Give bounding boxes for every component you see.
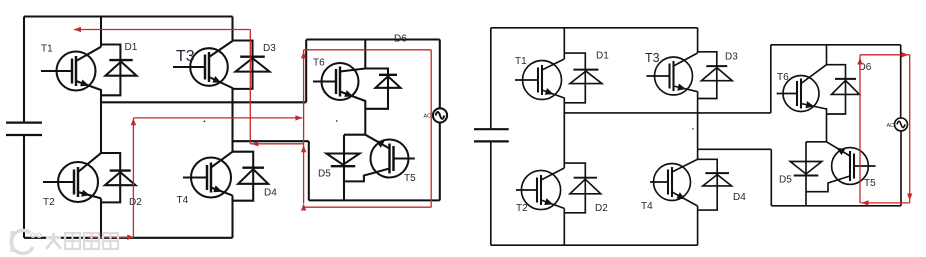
wire T6 collector stub: [364, 40, 366, 69]
svg-text:D5: D5: [779, 175, 792, 186]
svg-text:T3: T3: [176, 48, 195, 65]
wire midpoint bus 2 right: [698, 148, 772, 150]
red path box bottom segment: [304, 206, 432, 208]
diode D5 right: [790, 162, 822, 176]
wire midpoint bus 1 right: [564, 112, 771, 114]
red arrow up at box corner: [301, 204, 306, 211]
wire D4 branch: [233, 152, 254, 201]
svg-text:D3: D3: [263, 43, 276, 54]
wire top bus right: [491, 27, 698, 29]
diode D1 right: [570, 70, 602, 84]
IGBT T3: [173, 41, 233, 88]
svg-text:D1: D1: [596, 51, 609, 62]
label D3 right: [725, 52, 738, 63]
svg-text:T5: T5: [404, 173, 416, 184]
wire D2 branch: [101, 153, 120, 202]
wire leg1 upper segment: [100, 17, 102, 47]
label T2 right: [516, 203, 528, 214]
label D2 right: [595, 203, 608, 214]
IGBT T2 right: [516, 168, 564, 210]
label AC left: [424, 114, 432, 120]
svg-text:T6: T6: [777, 72, 789, 83]
svg-text:D5: D5: [318, 169, 331, 180]
red loop left vertical: [859, 55, 861, 203]
svg-text:AC: AC: [887, 123, 895, 129]
wire T6R box top bus: [771, 44, 901, 46]
node dot b: [336, 120, 338, 122]
red arrow up through D6: [857, 58, 862, 65]
red path AC right vertical: [430, 50, 432, 207]
wire D1 branch: [101, 45, 120, 96]
svg-text:D2: D2: [129, 197, 142, 208]
red path D3 vertical: [249, 30, 251, 144]
label T5: [404, 173, 416, 184]
label T2: [43, 197, 55, 208]
diode D4: [238, 168, 268, 184]
diode D5: [326, 154, 359, 167]
wire D5 branch: [343, 135, 345, 201]
svg-text:D4: D4: [264, 188, 277, 199]
wire D5 top stub: [344, 134, 365, 136]
wire midpoint bus 1: [101, 101, 306, 103]
red path top bus segment: [74, 29, 250, 31]
watermark: [11, 230, 118, 253]
wire T6R collector stub: [826, 45, 828, 65]
IGBT T4 right: [650, 159, 698, 206]
label D1 right: [596, 51, 609, 62]
wire D2 branch right: [564, 163, 585, 213]
node dot c: [692, 128, 694, 130]
wire D5R top stub: [806, 141, 827, 143]
wire T6R emitter to T5 node: [826, 108, 828, 142]
label D2: [129, 197, 142, 208]
diode D6: [376, 75, 401, 88]
red arrow up at D2 top: [131, 118, 136, 125]
red path D2 vertical: [132, 118, 134, 237]
wire AC source lower lead: [439, 123, 441, 201]
IGBT T6: [313, 63, 365, 101]
capacitor C1: [6, 17, 42, 238]
label T5 right: [864, 178, 876, 189]
wire D6 branch right: [827, 65, 846, 114]
wire leg2 upper segment: [231, 17, 233, 42]
svg-text:oo: oo: [30, 230, 42, 241]
wire leg2R lower segment: [697, 206, 699, 245]
svg-text:T4: T4: [641, 201, 653, 212]
red arrow into capacitor: [74, 27, 81, 32]
red path T6 box top segment: [304, 49, 432, 51]
IGBT T1: [41, 47, 101, 91]
red path midpoint2 segment: [250, 143, 303, 145]
label D3: [263, 43, 276, 54]
wire leg2 middle segment: [231, 88, 233, 152]
svg-text:D1: D1: [125, 42, 138, 53]
wire top bus left: [24, 15, 233, 17]
diode D2 right: [570, 178, 601, 194]
label D6 right: [859, 62, 872, 73]
wire bottom bus left: [24, 237, 233, 239]
label T1: [41, 44, 53, 55]
label T4 right: [641, 201, 653, 212]
label T6: [313, 58, 325, 69]
label T3: [176, 48, 195, 65]
IGBT T2: [43, 153, 101, 202]
IGBT T4: [183, 152, 233, 198]
wire D1 branch right: [564, 53, 585, 103]
wire T5 box bottom bus: [309, 199, 440, 201]
wire T5 box bottom-left edge: [308, 141, 310, 200]
svg-text:D4: D4: [733, 192, 746, 203]
wire T5R box bottom bus: [771, 205, 901, 207]
diode D4 right: [703, 173, 732, 186]
IGBT T6 right: [777, 65, 827, 112]
wire D5R branch: [805, 142, 807, 206]
label D5: [318, 169, 331, 180]
node dot a: [204, 121, 206, 123]
svg-text:T4: T4: [177, 195, 189, 206]
diode D3: [236, 57, 270, 72]
svg-text:AC: AC: [424, 114, 432, 120]
red arrow left at T5: [862, 200, 869, 205]
svg-text:T1: T1: [515, 56, 527, 67]
wire T6 box left edge: [305, 40, 307, 103]
wire D4 branch right: [698, 159, 718, 210]
IGBT T5: [344, 135, 415, 182]
red arrow right at D2 bottom: [127, 235, 134, 240]
svg-text:D2: D2: [595, 203, 608, 214]
wire midpoint bus 2: [233, 140, 309, 142]
AC source left: [433, 108, 447, 122]
wire D6 branch: [365, 69, 388, 109]
capacitor C2: [474, 28, 509, 245]
IGBT T5 right: [806, 142, 876, 192]
svg-text:D6: D6: [394, 34, 407, 45]
wire AC right upper lead: [900, 45, 902, 118]
red arrow up at T6 top: [301, 52, 306, 59]
label D4 right: [733, 192, 746, 203]
svg-text:T3: T3: [645, 51, 660, 65]
red arrow right into T6 box: [295, 115, 302, 120]
red arrow down at AC: [907, 194, 912, 201]
label D4: [264, 188, 277, 199]
wire D3 branch right: [698, 52, 717, 99]
label T4: [177, 195, 189, 206]
wire leg1R lower segment: [563, 208, 565, 245]
IGBT T1 right: [515, 59, 564, 100]
wire AC source upper lead: [439, 40, 441, 109]
label T3 right: [645, 51, 660, 65]
label D5 right: [779, 175, 792, 186]
svg-text:T5: T5: [864, 178, 876, 189]
wire AC right lower lead: [900, 131, 902, 206]
red arrow toward D3: [251, 141, 258, 146]
red path bottom bus segment: [88, 236, 133, 238]
red path T6 box left vertical: [303, 50, 305, 204]
diode D6 right: [832, 79, 860, 95]
wire D3 branch: [233, 41, 253, 89]
diode D2: [105, 171, 136, 186]
red loop bottom segment: [861, 202, 910, 204]
wire T5R box bottom-left edge: [770, 149, 772, 206]
red loop top segment: [860, 54, 910, 56]
svg-text:T1: T1: [41, 44, 53, 55]
wire T6R box left edge: [770, 45, 772, 113]
label AC right: [887, 123, 895, 129]
wire bottom bus right: [491, 244, 698, 246]
wire leg2R middle segment: [697, 91, 699, 159]
diode D1: [105, 60, 136, 76]
wire T6 emitter to T5 node: [364, 100, 366, 135]
red loop right vertical: [909, 55, 911, 203]
label D6: [394, 34, 407, 45]
svg-text:T6: T6: [313, 58, 325, 69]
label D1: [125, 42, 138, 53]
svg-text:T2: T2: [43, 197, 55, 208]
wire leg1 lower segment: [100, 198, 102, 237]
wire leg1 middle segment: [100, 89, 102, 153]
red arrow up below midpoint2: [301, 145, 306, 152]
wire leg1R upper segment: [563, 28, 565, 59]
wire leg2 lower segment: [231, 195, 233, 237]
IGBT T3 right: [646, 53, 697, 95]
AC source right: [895, 118, 908, 131]
wire leg1R middle segment: [563, 98, 565, 169]
label T6 right: [777, 72, 789, 83]
wire T6 box top bus: [306, 38, 440, 40]
svg-text:T2: T2: [516, 203, 528, 214]
svg-text:D3: D3: [725, 52, 738, 63]
red path midpoint1 segment: [133, 117, 302, 119]
red arrow right at loop top: [902, 52, 909, 57]
diode D3 right: [701, 66, 732, 81]
label T1 right: [515, 56, 527, 67]
wire leg2R upper segment: [697, 28, 699, 53]
